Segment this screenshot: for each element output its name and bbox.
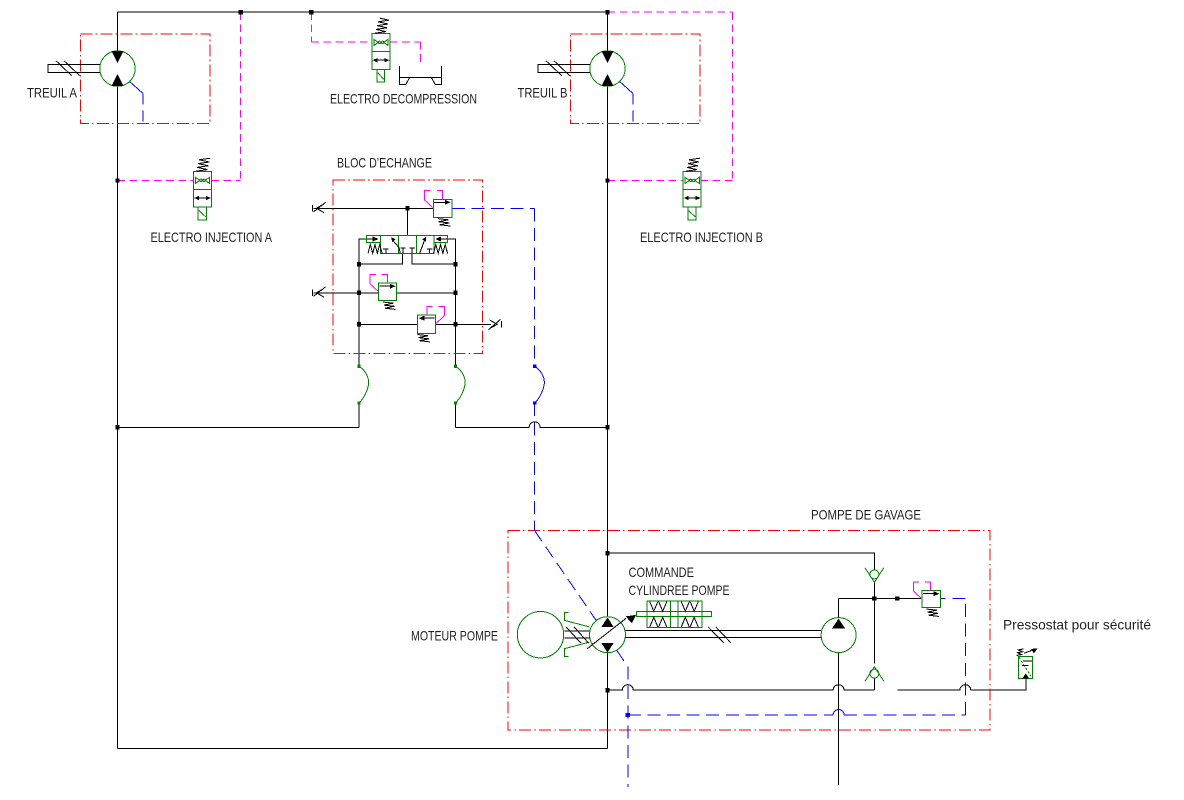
svg-text:MOTEUR POMPE: MOTEUR POMPE xyxy=(411,628,498,644)
svg-text:BLOC D’ECHANGE: BLOC D’ECHANGE xyxy=(337,155,432,171)
port arrow bloc mid left xyxy=(312,287,325,297)
svg-text:COMMANDE: COMMANDE xyxy=(629,564,695,580)
spring above injection B xyxy=(686,158,700,171)
wire magenta top bus to injection B xyxy=(608,12,733,180)
junction node top bus A xyxy=(239,10,243,14)
hydraulic motor TREUIL B xyxy=(590,51,625,86)
pilot arrow right cap xyxy=(441,238,447,240)
shaft TREUIL A xyxy=(48,61,100,76)
wire relief R3 line xyxy=(359,323,491,325)
wire blue vertical below pump xyxy=(627,667,629,788)
junction node y598 a xyxy=(872,596,876,600)
servo cylinder COMMANDE CYLINDREE xyxy=(637,601,712,628)
junction node pompe top xyxy=(606,551,610,555)
spring above injection A xyxy=(196,158,210,171)
junction node injection A xyxy=(115,178,119,182)
cylinder springs xyxy=(650,602,699,627)
port arrow bloc top left xyxy=(312,202,325,212)
hydraulic motor TREUIL A xyxy=(100,51,135,86)
pilot hook R1 magenta xyxy=(424,191,442,208)
solenoid valve ELECTRO INJECTION B xyxy=(683,158,701,220)
enclosure TREUIL B xyxy=(571,34,701,123)
solenoid valve ELECTRO INJECTION A xyxy=(194,158,212,220)
junction node y598 b xyxy=(895,596,899,600)
wire magenta decompression to tank xyxy=(390,42,421,66)
wire magenta injection A left xyxy=(117,179,193,181)
pilot hook R3 magenta xyxy=(427,307,445,324)
wire magenta injection B left xyxy=(608,179,684,181)
wire check valve link xyxy=(873,582,875,598)
centre position plug T xyxy=(400,248,415,254)
shuttle arrows injection A xyxy=(196,197,210,199)
flexible hose left green xyxy=(359,366,369,403)
wire blue riser to relief xyxy=(941,598,966,715)
wire left main vertical xyxy=(116,12,118,748)
relief valve R1 bloc xyxy=(424,191,451,226)
svg-text:POMPE DE GAVAGE: POMPE DE GAVAGE xyxy=(811,507,921,523)
shuttle arrows injection B xyxy=(685,197,699,199)
coupling motor-pump xyxy=(564,612,589,656)
position P1 bent arrow xyxy=(394,241,401,253)
spring left cap xyxy=(368,245,382,254)
spring above decompression xyxy=(375,18,389,33)
relief valve R3 bloc xyxy=(418,307,445,342)
check valve CV2 xyxy=(865,667,884,682)
flexible hose right green xyxy=(455,366,465,403)
wire blue bottom horizontal with hop xyxy=(628,714,966,716)
junction node relief3 left xyxy=(357,322,361,326)
WIRES-BLACK xyxy=(117,12,1025,785)
junction node valve bottom right xyxy=(453,262,457,266)
tank reservoir xyxy=(400,66,442,85)
inlet arrow xyxy=(1022,673,1029,678)
junction node top bus B xyxy=(606,10,610,14)
svg-text:Pressostat pour sécurité: Pressostat pour sécurité xyxy=(1003,617,1151,633)
position P1 plug T xyxy=(383,249,388,254)
wire blue bloc pilot vertical xyxy=(534,208,536,366)
wire mid-right horizontal y427 with crossover hop xyxy=(455,422,607,427)
wire right main vertical xyxy=(607,12,609,748)
wire bloc valve left cap link xyxy=(359,239,366,264)
shaft motor-pump xyxy=(564,627,589,643)
pilot hook gavage magenta xyxy=(913,582,930,599)
wire top bus xyxy=(117,11,607,13)
spring right cap xyxy=(434,245,448,254)
enclosure BLOC D'ECHANGE xyxy=(333,180,483,353)
wire charge pump bottom line xyxy=(838,653,840,785)
junction node top bus decompression xyxy=(309,10,313,14)
wire magenta drop to injection A xyxy=(240,12,242,180)
spring R2 xyxy=(383,302,396,309)
position P2 diagonal arrow xyxy=(420,241,425,254)
charge pump xyxy=(821,618,856,653)
junction node relief2 right xyxy=(453,291,457,295)
junction node drain xyxy=(606,688,610,692)
drain TREUIL A xyxy=(130,82,143,94)
wire charge pump top stub xyxy=(838,598,840,617)
position P2 plug T xyxy=(427,249,432,254)
wire bloc right vertical xyxy=(454,264,456,366)
junction node y427 right xyxy=(606,425,610,429)
wire pressostat line with hop xyxy=(897,679,1026,691)
svg-text:ELECTRO INJECTION A: ELECTRO INJECTION A xyxy=(151,229,273,245)
drain TREUIL B xyxy=(620,82,633,94)
pilot hook R2 magenta xyxy=(370,274,388,291)
wire blue below hose xyxy=(534,403,536,531)
wire pompe top line xyxy=(608,553,875,569)
junction node relief2 left xyxy=(357,291,361,295)
shaft pump-chargepump xyxy=(626,627,822,643)
enclosure TREUIL A xyxy=(81,34,211,123)
relief valve R2 bloc xyxy=(370,274,397,309)
junction node relief3 right xyxy=(453,322,457,326)
wire drain y690 with hops xyxy=(608,685,875,691)
RED enclosure boxes (dash-dot) xyxy=(81,34,990,730)
svg-text:ELECTRO INJECTION B: ELECTRO INJECTION B xyxy=(640,229,763,245)
wire blue bloc pilot horizontal xyxy=(452,207,535,209)
junction node bloc top xyxy=(405,206,409,210)
port arrow bloc right xyxy=(488,319,501,330)
relief valve gavage xyxy=(913,582,940,616)
wire mid-left horizontal y427 xyxy=(117,426,359,428)
check valve CV1 xyxy=(865,568,884,583)
switch spring arrow xyxy=(1017,649,1032,656)
pressure switch Pressostat xyxy=(1017,649,1038,679)
svg-text:TREUIL A: TREUIL A xyxy=(27,85,78,101)
pilot arrow left cap xyxy=(367,238,373,240)
wire magenta decompression feed xyxy=(311,12,372,42)
displacement arrow xyxy=(587,618,626,649)
switch contacts xyxy=(1022,661,1032,665)
junction node valve bottom left xyxy=(357,262,361,266)
wire magenta injection A right xyxy=(212,179,241,181)
spring R3 xyxy=(418,335,431,342)
wire relief R2 line xyxy=(314,292,456,294)
flexible hose blue xyxy=(535,366,545,403)
electric motor MOTEUR POMPE xyxy=(517,612,563,658)
shaft TREUIL B xyxy=(538,61,590,76)
BLUE pilot/drain wires xyxy=(130,82,966,787)
variable pump POMPE xyxy=(587,615,636,653)
directional valve bloc d'echange xyxy=(366,236,447,254)
svg-text:ELECTRO DECOMPRESSION: ELECTRO DECOMPRESSION xyxy=(330,91,477,107)
svg-text:TREUIL B: TREUIL B xyxy=(518,85,568,101)
enclosure POMPE DE GAVAGE xyxy=(508,531,990,730)
wire bloc valve bottom port right xyxy=(412,254,456,265)
shuttle arrows decompression xyxy=(374,59,388,61)
MAGENTA pilot wires xyxy=(117,12,732,180)
junction node injection B xyxy=(606,178,610,182)
solenoid valve ELECTRO DECOMPRESSION xyxy=(372,18,390,82)
wire blue diagonal to pump xyxy=(535,531,628,667)
wire bloc left vertical xyxy=(358,264,360,366)
wire bloc top line xyxy=(314,207,434,209)
wire bloc valve right cap link xyxy=(447,239,455,264)
svg-text:CYLINDREE POMPE: CYLINDREE POMPE xyxy=(629,582,730,598)
wire bottom return xyxy=(117,747,607,749)
spring gavage xyxy=(926,609,939,616)
wire blue crossover hop xyxy=(833,710,844,716)
wire hose stubs bottom xyxy=(359,403,456,427)
wire check valve CV2 vertical xyxy=(873,598,875,690)
junction node y427 left xyxy=(115,425,119,429)
wire bloc valve bottom port left xyxy=(359,254,402,265)
wire gavage y598 line xyxy=(839,597,923,599)
junction node blue xyxy=(626,713,630,717)
wire bloc valve top port xyxy=(407,208,409,235)
spring R1 xyxy=(438,219,451,226)
